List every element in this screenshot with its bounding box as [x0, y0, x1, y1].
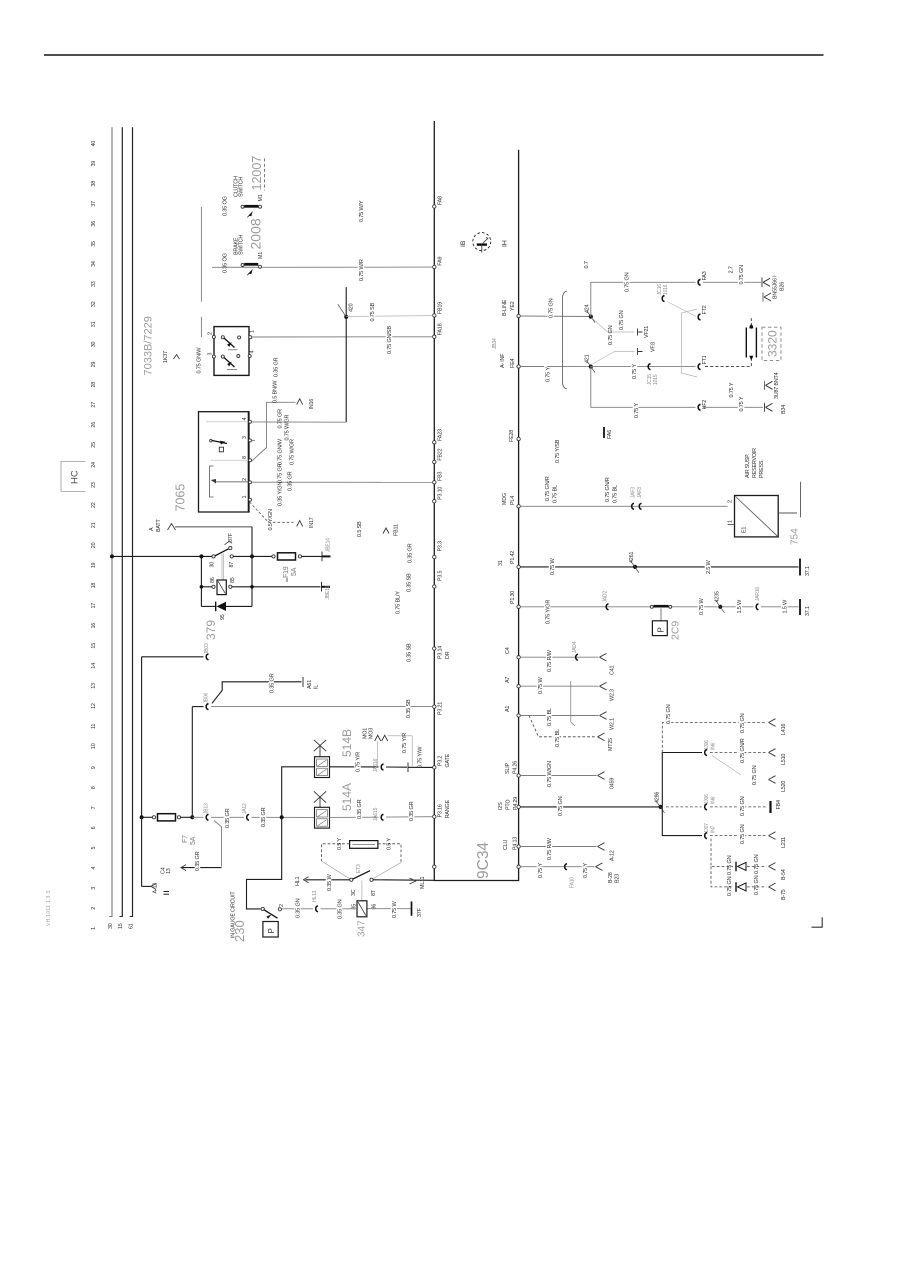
node F7 feed junction	[140, 815, 144, 819]
wire 7065 pin4 to splice420	[252, 421, 346, 423]
svg-text:W2.3: W2.3	[610, 689, 616, 701]
svg-text:379: 379	[204, 620, 218, 640]
wire splice421 down to HF2	[591, 367, 696, 408]
relay 1K37 actuating link	[222, 554, 224, 581]
svg-text:0.75 GN: 0.75 GN	[754, 875, 760, 895]
svg-text:0.35 OG: 0.35 OG	[223, 196, 229, 216]
svg-text:9: 9	[91, 766, 97, 769]
svg-text:4: 4	[250, 351, 256, 354]
svg-text:32: 32	[91, 301, 97, 307]
terminal 3U87	[765, 372, 788, 414]
splice 424	[585, 304, 596, 322]
wire splice420 to FB19	[346, 315, 432, 318]
svg-text:85: 85	[230, 577, 236, 583]
wire rail30 to relay contact	[112, 555, 212, 557]
svg-text:SLIP: SLIP	[505, 763, 511, 774]
svg-text:0.35 SB: 0.35 SB	[407, 573, 413, 592]
svg-text:JB03: JB03	[204, 643, 210, 654]
node junction (192.3,817.3)	[190, 815, 194, 819]
svg-text:0.75 GR: 0.75 GR	[278, 463, 284, 483]
wire splice421 to FT1	[591, 366, 696, 368]
arrow ML11	[410, 877, 427, 889]
svg-text:5A: 5A	[291, 567, 298, 576]
svg-text:0.35 GR: 0.35 GR	[357, 799, 363, 819]
svg-text:B23: B23	[615, 874, 621, 883]
wire 2C9 to ground 37.1	[672, 587, 811, 616]
svg-text:3: 3	[208, 353, 214, 356]
svg-text:27: 27	[91, 402, 97, 408]
svg-text:8: 8	[242, 456, 248, 459]
node P3.10	[433, 487, 444, 503]
svg-text:26: 26	[91, 422, 97, 428]
svg-text:F19: F19	[283, 566, 290, 578]
connector JC16	[657, 284, 696, 317]
svg-text:IN6: IN6	[711, 796, 717, 804]
header rule	[44, 54, 824, 56]
svg-text:B34: B34	[781, 405, 787, 414]
svg-text:95: 95	[220, 614, 226, 620]
svg-text:1.5 W: 1.5 W	[783, 599, 789, 614]
svg-text:29: 29	[91, 362, 97, 368]
svg-text:CLU: CLU	[503, 840, 509, 850]
svg-text:0.75 W: 0.75 W	[699, 598, 705, 615]
svg-text:3: 3	[91, 887, 97, 890]
svg-text:1: 1	[242, 496, 248, 499]
wire P1.42 to ground 37.1	[520, 552, 811, 576]
svg-text:L211: L211	[781, 837, 787, 848]
svg-text:P3.2: P3.2	[438, 756, 444, 766]
svg-text:31: 31	[91, 321, 97, 327]
svg-text:0.75 BL/Y: 0.75 BL/Y	[396, 591, 402, 614]
svg-text:MDG: MDG	[502, 493, 508, 505]
svg-text:0.75 GN: 0.75 GN	[727, 855, 733, 875]
brake switch 2008	[234, 218, 265, 275]
svg-text:87F: 87F	[228, 532, 234, 542]
wire JA615 to P3.16	[386, 816, 433, 818]
svg-text:FE28: FE28	[509, 430, 515, 442]
node FAE inline connector	[604, 427, 613, 439]
svg-text:4261: 4261	[629, 552, 635, 563]
svg-text:MT25: MT25	[608, 738, 614, 751]
svg-text:0.75 W: 0.75 W	[392, 901, 398, 918]
svg-text:22: 22	[91, 502, 97, 508]
svg-text:1015: 1015	[653, 374, 659, 385]
wire SLIP to 0459	[520, 761, 615, 789]
svg-text:3U87 BNT4: 3U87 BNT4	[774, 372, 780, 399]
connector JA615	[373, 807, 384, 821]
svg-text:31: 31	[498, 560, 504, 566]
node FU10	[517, 656, 520, 659]
svg-text:37.1: 37.1	[805, 606, 811, 616]
svg-text:P1.30: P1.30	[510, 591, 516, 604]
node FB3	[433, 472, 444, 484]
arrow FB11	[357, 521, 400, 537]
svg-text:JA615: JA615	[373, 807, 379, 821]
dashed branch to MT25	[529, 716, 614, 752]
node P3.21	[433, 702, 444, 715]
svg-text:1: 1	[728, 520, 734, 523]
svg-text:JBE14: JBE14	[326, 538, 332, 552]
svg-text:347: 347	[357, 920, 368, 937]
svg-text:ML11: ML11	[420, 877, 426, 889]
svg-text:B-28: B-28	[608, 872, 614, 883]
svg-text:0.75 Y/GR: 0.75 Y/GR	[546, 600, 552, 624]
node P4.6	[517, 865, 520, 868]
svg-text:SWITCH: SWITCH	[239, 177, 245, 197]
svg-text:0.5 Y: 0.5 Y	[387, 838, 393, 850]
arrows MO1 MO3	[363, 728, 413, 766]
connector JA12	[242, 803, 249, 820]
wire branch to A-12 arrow	[142, 817, 169, 894]
svg-text:HL13: HL13	[312, 890, 318, 902]
clutch switch 12007	[234, 156, 265, 218]
node FB22	[433, 448, 444, 463]
svg-text:2.5 W: 2.5 W	[706, 559, 712, 574]
svg-text:JJ06: JJ06	[704, 740, 710, 750]
svg-text:P: P	[657, 627, 666, 632]
node P1.30	[510, 591, 520, 609]
svg-text:0.75 GN: 0.75 GN	[558, 796, 564, 816]
svg-text:13: 13	[166, 868, 172, 874]
node P1.42	[498, 551, 520, 569]
svg-text:1: 1	[91, 927, 97, 930]
switch 230 feed	[247, 817, 282, 909]
node P3.3	[433, 541, 444, 559]
svg-text:514B: 514B	[340, 729, 354, 757]
node W21 pin	[517, 714, 520, 717]
svg-text:4: 4	[91, 867, 97, 870]
svg-text:IN17: IN17	[309, 517, 315, 528]
svg-text:2: 2	[279, 904, 285, 907]
svg-text:A- INF: A- INF	[500, 353, 506, 368]
svg-text:JAD2: JAD2	[603, 591, 609, 603]
svg-text:RESERVOIR: RESERVOIR	[752, 448, 758, 478]
svg-text:0.5 Y/GN: 0.5 Y/GN	[268, 509, 274, 530]
svg-text:0.75 Y: 0.75 Y	[583, 863, 589, 878]
svg-text:34: 34	[91, 261, 97, 267]
node FA18	[433, 323, 444, 338]
svg-text:1: 1	[250, 330, 256, 333]
svg-text:33: 33	[91, 281, 97, 287]
connector JB06 riser	[192, 692, 209, 817]
svg-text:DR: DR	[445, 651, 451, 659]
svg-text:0.75 GN: 0.75 GN	[740, 796, 746, 816]
wire 347 switch to ML11	[373, 879, 434, 882]
svg-text:JB06: JB06	[204, 692, 210, 703]
svg-text:0.75 Y/W: 0.75 Y/W	[418, 746, 424, 768]
wire FE4 to splice 421	[520, 366, 590, 368]
svg-text:PTO: PTO	[506, 800, 512, 810]
svg-text:12007: 12007	[250, 156, 264, 191]
svg-text:IN7: IN7	[711, 825, 717, 833]
svg-text:0.75 GN/W: 0.75 GN/W	[278, 438, 284, 465]
svg-text:0.75 GN: 0.75 GN	[666, 704, 672, 724]
svg-text:M1: M1	[258, 194, 264, 201]
wire BATT feed	[149, 519, 252, 532]
svg-text:37.1: 37.1	[805, 566, 811, 576]
wire FU10 to C41	[520, 641, 615, 675]
svg-text:0.75 GN: 0.75 GN	[727, 876, 733, 896]
rail 15	[121, 127, 123, 916]
wire FA3 to ring terminals	[703, 281, 761, 283]
svg-text:2: 2	[91, 907, 97, 910]
svg-text:FA23: FA23	[438, 429, 444, 441]
svg-text:FB3: FB3	[438, 472, 444, 481]
relay 347 coil	[352, 901, 378, 937]
svg-text:21: 21	[91, 522, 97, 528]
connector JB03	[142, 643, 210, 660]
svg-text:0.75 GN/R: 0.75 GN/R	[605, 477, 611, 502]
svg-text:5: 5	[91, 847, 97, 850]
connector HL13	[312, 890, 318, 911]
branch dashed right to FB4	[666, 794, 782, 816]
svg-text:15: 15	[118, 923, 124, 929]
node FA8 (pin, 9C34 left edge)	[433, 196, 444, 208]
terminal BN55J66	[762, 276, 786, 302]
ECU 9C34 box	[434, 121, 518, 881]
svg-text:424: 424	[585, 304, 591, 313]
svg-text:P3.3: P3.3	[438, 541, 444, 551]
svg-text:6: 6	[91, 826, 97, 829]
svg-text:7065: 7065	[174, 484, 188, 512]
arrow HL1 (347 switch feed)	[295, 877, 309, 886]
node P3.16 RANGE	[433, 800, 451, 819]
svg-text:0.75 GN/R: 0.75 GN/R	[740, 738, 746, 763]
node junction (201.4,556.4)	[199, 554, 203, 558]
svg-text:30: 30	[210, 562, 216, 568]
svg-text:HL1: HL1	[295, 877, 301, 886]
node P3.18 (lower left pin)	[433, 865, 436, 868]
svg-text:A: A	[149, 527, 155, 531]
svg-text:0.75 R/W: 0.75 R/W	[547, 649, 553, 672]
svg-text:P3.5: P3.5	[438, 571, 444, 581]
svg-text:BN55J66 I: BN55J66 I	[773, 276, 779, 299]
wire feed to 514B	[282, 767, 315, 818]
svg-text:F7: F7	[182, 835, 189, 843]
branch IN6 to L520	[712, 756, 787, 793]
svg-text:A-12: A-12	[153, 883, 159, 894]
svg-text:0.75 GN/R: 0.75 GN/R	[545, 476, 551, 501]
svg-text:P4.29: P4.29	[513, 797, 519, 810]
relay 1K37 contact box	[208, 327, 256, 376]
svg-text:1K37: 1K37	[163, 351, 169, 363]
svg-text:2C9: 2C9	[670, 621, 682, 640]
svg-text:1016: 1016	[663, 284, 669, 295]
svg-text:87: 87	[229, 562, 235, 568]
svg-text:8: 8	[91, 786, 97, 789]
svg-text:HF2: HF2	[702, 400, 708, 410]
branch arrows VF8/VF21	[593, 310, 657, 364]
svg-text:2.7: 2.7	[729, 266, 735, 273]
wire F19 to JBE14 arrow	[302, 538, 332, 561]
svg-text:JJ07: JJ07	[704, 823, 710, 833]
svg-text:0.75 BL: 0.75 BL	[613, 485, 619, 503]
node YE2 B-LINE (9C34 right edge pin)	[492, 299, 520, 349]
svg-text:12: 12	[91, 703, 97, 709]
wire 1K37 pin1 to FA18	[252, 336, 433, 338]
relay 347 actuating link	[361, 881, 363, 901]
wire 7065 pin8 riser to IN16	[252, 399, 316, 462]
svg-text:FT1: FT1	[702, 355, 708, 364]
switch 230	[231, 891, 286, 942]
coil wire end arrow	[322, 582, 332, 600]
svg-text:0.35 OG: 0.35 OG	[223, 253, 229, 273]
svg-text:8T: 8T	[371, 889, 377, 896]
svg-text:37F: 37F	[417, 907, 423, 917]
wire HL13 to 347 coil	[321, 908, 356, 910]
svg-text:25: 25	[91, 442, 97, 448]
svg-text:0.75 GN: 0.75 GN	[740, 713, 746, 733]
svg-text:0.75 R/W: 0.75 R/W	[547, 837, 553, 860]
pressure switch 2C9	[650, 605, 681, 640]
svg-text:0.75 Y: 0.75 Y	[739, 396, 745, 411]
splice 421	[585, 354, 596, 372]
svg-text:4235: 4235	[715, 591, 721, 602]
svg-text:15: 15	[91, 643, 97, 649]
svg-text:40: 40	[91, 141, 97, 147]
svg-text:0.75 GN/W: 0.75 GN/W	[197, 347, 203, 374]
svg-text:0.75 GN: 0.75 GN	[549, 298, 555, 318]
wire P4.6 to B23	[520, 863, 620, 888]
svg-text:L416: L416	[781, 724, 787, 735]
svg-text:IB: IB	[460, 240, 467, 247]
svg-text:MO3: MO3	[369, 728, 375, 739]
wire P1.30 to pressure switch 2C9	[520, 591, 650, 624]
wire coil pins	[201, 586, 211, 588]
node junction (281.7,817.3)	[280, 815, 284, 819]
node W23 pin	[517, 685, 520, 688]
svg-text:0.35 SB: 0.35 SB	[407, 643, 413, 662]
svg-text:B-75: B-75	[781, 889, 787, 900]
svg-text:3C: 3C	[351, 889, 357, 896]
svg-text:JAR16: JAR16	[755, 587, 761, 601]
svg-text:0.75 GN: 0.75 GN	[608, 325, 614, 345]
svg-text:0.35 W: 0.35 W	[327, 874, 333, 891]
svg-text:0.75 GR: 0.75 GR	[278, 409, 284, 429]
svg-text:B-LINE: B-LINE	[502, 299, 508, 316]
svg-text:FB22: FB22	[438, 448, 444, 460]
svg-text:0.75 W: 0.75 W	[550, 558, 556, 575]
connector JB13	[192, 803, 209, 820]
rail 30	[111, 127, 113, 916]
wire link brake/clutch vertical	[200, 207, 202, 302]
svg-text:0.5 Y: 0.5 Y	[337, 838, 343, 850]
svg-text:17: 17	[91, 603, 97, 609]
svg-text:421: 421	[585, 354, 591, 363]
svg-text:23: 23	[91, 482, 97, 488]
svg-text:B26: B26	[780, 282, 786, 291]
connector JAF3 pair	[631, 487, 644, 510]
solenoid valve 514B	[314, 729, 354, 778]
svg-text:514A: 514A	[340, 783, 354, 811]
connector FA3	[698, 271, 708, 285]
svg-text:C41: C41	[610, 666, 616, 675]
svg-text:JAD4: JAD4	[572, 641, 578, 653]
node FE4 A-INF	[500, 353, 520, 368]
wire branch to C4-13 arrow	[161, 821, 222, 875]
svg-text:AIR SUSP.: AIR SUSP.	[745, 454, 751, 478]
relay 1K37 contact	[210, 532, 236, 567]
connector JA616	[373, 758, 384, 772]
svg-text:I2S: I2S	[498, 802, 504, 810]
svg-text:754: 754	[790, 528, 801, 545]
svg-text:FB4: FB4	[776, 800, 782, 809]
svg-text:0.35 GR: 0.35 GR	[288, 471, 294, 491]
svg-text:0.75 Y: 0.75 Y	[546, 367, 552, 382]
svg-text:1.5 W: 1.5 W	[737, 599, 743, 614]
svg-text:2: 2	[728, 500, 734, 503]
svg-text:0.35 GR: 0.35 GR	[261, 807, 267, 827]
svg-text:IN GAUGE CIRCUIT: IN GAUGE CIRCUIT	[231, 891, 237, 938]
svg-text:FT2: FT2	[702, 305, 708, 314]
svg-text:ET3: ET3	[356, 864, 362, 873]
svg-text:A7: A7	[505, 677, 511, 683]
node junction (252,556.4)	[250, 554, 254, 558]
node P3.2 GATE	[433, 753, 451, 769]
rail 61	[132, 127, 134, 916]
svg-text:0.75 GN: 0.75 GN	[625, 272, 631, 292]
svg-text:0.75 Y: 0.75 Y	[729, 382, 735, 397]
symbol IB/IH coupling	[460, 233, 509, 253]
svg-text:0.35 GR: 0.35 GR	[225, 808, 231, 828]
svg-text:30: 30	[91, 342, 97, 348]
svg-text:0.5 SB: 0.5 SB	[357, 521, 363, 537]
loom bracket FT2/FT1	[682, 309, 698, 377]
svg-text:18: 18	[91, 583, 97, 589]
svg-text:2: 2	[208, 332, 214, 335]
relay 347 switch	[350, 871, 377, 896]
svg-text:0.75 Y: 0.75 Y	[632, 364, 638, 379]
svg-text:HC: HC	[70, 470, 81, 484]
branch splice4286 down to IN7/L211	[662, 807, 787, 848]
node rail30 junction	[110, 554, 114, 558]
wire link to relay contact	[200, 317, 202, 337]
svg-text:JJ06: JJ06	[704, 794, 710, 804]
svg-text:YE2: YE2	[510, 301, 516, 311]
svg-text:0.75 W/GR: 0.75 W/GR	[285, 414, 291, 440]
svg-text:VF.8: VF.8	[651, 342, 657, 352]
svg-text:0.35 GN: 0.35 GN	[296, 898, 302, 918]
svg-text:38: 38	[91, 181, 97, 187]
page corner mark	[812, 917, 823, 927]
twisted pair brace	[562, 291, 567, 389]
svg-text:37: 37	[91, 201, 97, 207]
svg-text:0459: 0459	[610, 778, 616, 789]
svg-text:P3.16: P3.16	[438, 804, 444, 817]
svg-text:FA18: FA18	[438, 323, 444, 335]
svg-text:11: 11	[91, 724, 97, 729]
connector JC15	[647, 364, 659, 385]
wire 7065 pin3 stub	[252, 439, 256, 441]
svg-text:0.75 GN: 0.75 GN	[752, 765, 758, 785]
svg-text:BATT: BATT	[156, 519, 162, 532]
svg-text:35: 35	[91, 241, 97, 247]
svg-text:P1.42: P1.42	[510, 551, 516, 564]
wire JA12 to valve 514A	[252, 816, 315, 818]
relay 1K37 designator	[163, 351, 180, 363]
svg-text:4286: 4286	[655, 792, 661, 803]
svg-text:VH 1011 1.3.3: VH 1011 1.3.3	[46, 891, 52, 927]
branch dashed up to L416	[662, 704, 787, 752]
wire 514B to GATE pin	[330, 766, 379, 768]
node junction (252,586.8)	[250, 585, 254, 589]
node FE28	[509, 430, 561, 463]
svg-text:20: 20	[91, 542, 97, 548]
svg-text:0.75 BL: 0.75 BL	[555, 729, 561, 747]
svg-text:0.35 GR: 0.35 GR	[270, 673, 276, 693]
svg-text:4: 4	[242, 418, 248, 421]
svg-text:RANGE: RANGE	[445, 800, 451, 819]
